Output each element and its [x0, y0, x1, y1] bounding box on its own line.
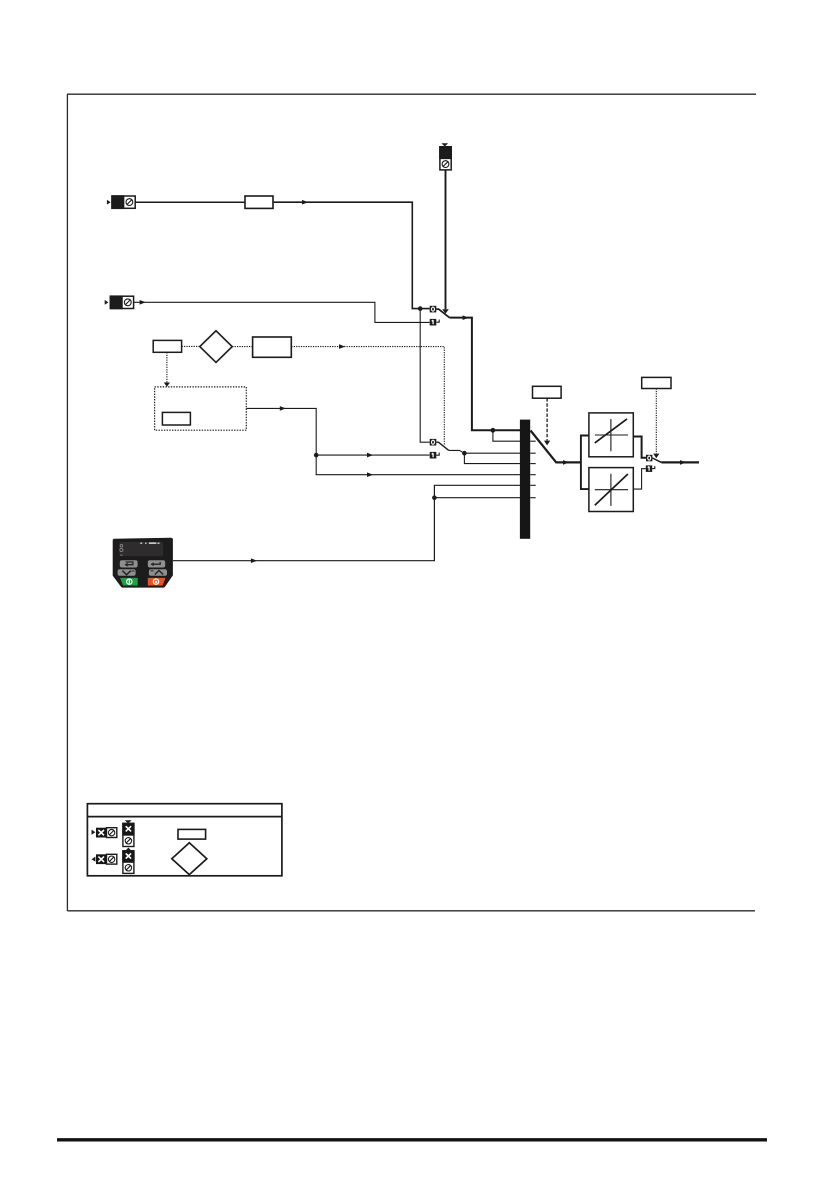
switch S2 contact 1: [430, 452, 437, 459]
legend output X box: [96, 854, 106, 864]
keypad: [113, 538, 173, 588]
arrowhead on dotted wire C: [339, 344, 345, 349]
arrowhead on S3 output: [680, 460, 686, 465]
reference selector bar: [520, 420, 530, 539]
label box L2 (ramp bypass control): [642, 377, 671, 388]
wire ramp U2 output to switch S3 input 1: [633, 469, 646, 489]
switch S3 contact 1: [646, 465, 652, 472]
arrowhead to S2 input 1: [367, 453, 373, 458]
dashed wire L1 to ramp path: [546, 398, 548, 440]
dotted wire diamond to block C: [232, 346, 252, 348]
wire S2 output to bar: [449, 450, 520, 453]
arrowhead on D output: [280, 406, 286, 411]
wire R1 to switch S1 input 0: [273, 202, 430, 308]
legend decision diamond: [172, 843, 207, 875]
legend vertical parameter symbol 2: [123, 851, 134, 874]
arrowhead after P2: [140, 300, 146, 305]
arrowhead S1 output: [463, 315, 469, 320]
parameter P2 (RW, input): [105, 296, 134, 308]
bar right stubs: [530, 441, 536, 498]
wire ramp U1 output to switch S3 input 0: [633, 437, 646, 458]
legend title separator: [87, 816, 282, 818]
arrowhead on ramp input wire: [563, 460, 569, 465]
junction node S2 output: [462, 451, 467, 456]
junction node under S1 input 0: [418, 306, 423, 311]
wire P1 to block R1: [135, 201, 245, 203]
legend block rectangle: [178, 829, 206, 839]
parameter V1 (vertical RW parameter, top): [440, 143, 451, 170]
label box L1 (ramp control): [533, 386, 562, 398]
switch S3 contact 1 open lead: [652, 466, 655, 469]
legend input X box: [96, 828, 106, 838]
dotted wire A down to dashed box D: [166, 352, 168, 382]
wire S2 output lower branch to bar: [464, 453, 520, 463]
legend input terminal arrow: [92, 830, 96, 835]
wire bar output diagonal to ramp blocks: [531, 431, 581, 463]
switch S3 contact 0: [646, 455, 652, 462]
decision diamond B: [200, 331, 232, 363]
arrowhead into dashed box D: [164, 383, 170, 387]
wire S3 output: [661, 461, 699, 463]
wire junction to bar second input: [493, 430, 520, 441]
dotted wire C to switch S2 control: [291, 347, 444, 446]
switch S3 blade: [652, 458, 661, 462]
switch S2 contact 1 open lead: [436, 453, 439, 456]
legend input RW box: [107, 828, 117, 838]
junction node on bar input: [491, 428, 496, 433]
wire P2 to switch S1 input 1: [134, 302, 430, 322]
wire D output to S2 input 1 and to bar: [246, 408, 520, 474]
dashed box D: [155, 387, 247, 430]
block C: [253, 337, 292, 357]
ramp input tee: [580, 436, 589, 490]
dotted wire A to decision diamond: [182, 345, 200, 347]
arrowhead V1 control: [442, 309, 449, 313]
legend output RW box: [107, 854, 117, 864]
switch S1 blade: [436, 309, 449, 318]
legend vertical parameter symbol 2 arrow: [125, 848, 133, 852]
wire junction to S2 input 1: [316, 454, 429, 456]
arrowhead L1: [544, 441, 550, 446]
block E inside dashed box: [162, 412, 190, 425]
block R1: [245, 196, 273, 208]
switch S2 blade: [436, 442, 449, 450]
footer rule: [57, 1138, 767, 1141]
parameter P1 (RW, input, top-left): [107, 196, 135, 208]
page frame (top, left, bottom borders): [67, 94, 756, 911]
block A (small reference box): [153, 340, 181, 352]
legend vertical parameter symbol 1: [123, 823, 134, 846]
dotted wire L2 to switch S3 control: [655, 389, 657, 454]
junction node on D output: [314, 453, 319, 458]
arrowhead on wire R1: [302, 200, 308, 205]
legend box: [87, 804, 282, 876]
wire junction down to switch S2 input 0: [420, 309, 430, 443]
arrowhead L2: [653, 454, 659, 459]
keypad output wire to bar: [173, 485, 520, 560]
wire junction to bar lowest input: [434, 497, 520, 499]
switch S1 contact 1: [430, 319, 437, 326]
wire S1 output to reference bar: [449, 318, 520, 431]
arrowhead on keypad wire: [251, 558, 257, 563]
switch S1 contact 1 open lead: [436, 320, 439, 323]
legend vertical parameter symbol 1 arrow: [125, 820, 132, 823]
ramp block U1 (upper): [589, 413, 633, 457]
junction node on keypad riser: [432, 495, 437, 500]
switch S2 contact 0: [430, 439, 437, 446]
legend output terminal arrow: [92, 857, 96, 862]
arrowhead on lower branch to bar: [367, 472, 373, 477]
ramp block U2 (lower): [589, 468, 633, 512]
wire V1 down to switch S1 control: [445, 170, 447, 309]
switch S1 contact 0: [430, 306, 437, 313]
